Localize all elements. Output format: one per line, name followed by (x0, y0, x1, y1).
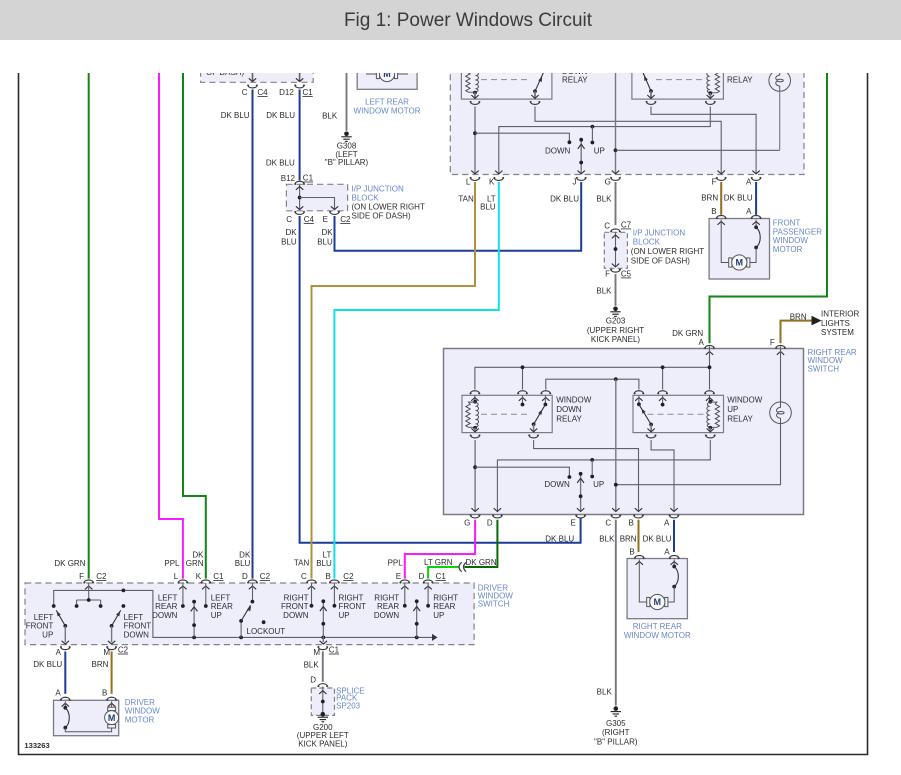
svg-text:REAR: REAR (211, 602, 233, 611)
SW1 wire: pin G up through box with lamp branch (614, 66, 780, 174)
SW2 pin A entry (705, 345, 715, 354)
K4 coil (707, 395, 720, 432)
svg-text:LEFT REAR: LEFT REAR (365, 97, 409, 106)
K3 unused middle pin (521, 395, 525, 406)
svg-text:A: A (56, 648, 62, 657)
svg-text:WINDOW: WINDOW (556, 395, 592, 404)
svg-text:DK BLU: DK BLU (550, 195, 579, 204)
svg-text:C: C (242, 88, 248, 97)
lamp L1 (769, 70, 791, 151)
driver window switch SW3 (25, 583, 513, 645)
svg-text:DK BLU: DK BLU (545, 535, 574, 544)
svg-text:UP: UP (42, 630, 53, 639)
svg-text:F: F (605, 270, 610, 279)
svg-text:C2: C2 (118, 646, 129, 655)
SW3 right front up contact from pin B (333, 583, 367, 620)
svg-text:DK BLU: DK BLU (266, 159, 295, 168)
ground G308 (left B pillar) (325, 132, 369, 168)
svg-text:MOTOR: MOTOR (773, 245, 803, 254)
svg-text:MOTOR: MOTOR (125, 715, 155, 724)
svg-text:REAR: REAR (433, 602, 455, 611)
wire BRN SW1 F to passenger motor B (720, 182, 722, 215)
SW3 right rear lever (413, 599, 420, 637)
svg-text:DOWN: DOWN (374, 611, 400, 620)
svg-text:WINDOW MOTOR: WINDOW MOTOR (354, 107, 421, 116)
K2 switch (641, 68, 655, 99)
svg-text:PPL: PPL (388, 559, 404, 568)
SW1 bottom edge pin arrows (471, 171, 760, 174)
SW3 pin D2 / C1 (419, 572, 447, 589)
svg-text:UP: UP (594, 146, 605, 155)
svg-text:F: F (712, 178, 717, 187)
SW1 pin J (550, 177, 586, 204)
SW3 pin C (301, 572, 316, 589)
svg-text:A: A (746, 178, 752, 187)
svg-text:C: C (605, 519, 611, 528)
svg-text:E: E (396, 572, 401, 581)
svg-text:G305: G305 (606, 719, 626, 728)
ground G200 (upper left kick panel) (297, 712, 349, 748)
svg-text:C: C (604, 222, 610, 231)
wire DK GRN feed to driver switch K (183, 66, 206, 579)
svg-text:BLU: BLU (480, 202, 496, 211)
ground G305 (right B pillar) (594, 706, 638, 746)
svg-text:BLK: BLK (597, 687, 613, 696)
svg-text:(ON LOWER RIGHT: (ON LOWER RIGHT (631, 247, 704, 256)
lamp L2 (616, 347, 792, 485)
svg-text:(ON LOWER RIGHT: (ON LOWER RIGHT (352, 203, 425, 212)
svg-text:WINDOW: WINDOW (727, 395, 763, 404)
svg-text:DK BLU: DK BLU (221, 111, 250, 120)
svg-text:UP: UP (339, 611, 350, 620)
SW3 pin B / C2 (326, 572, 355, 589)
svg-text:RIGHT: RIGHT (284, 593, 309, 602)
svg-text:BLU: BLU (316, 559, 332, 568)
K4 switch (637, 395, 655, 432)
SW3 pin M2 bottom with bus drop (304, 637, 340, 669)
SW2 wire: ground line pin C (614, 379, 618, 511)
K2 pin connectors (646, 101, 715, 104)
svg-text:DK BLU: DK BLU (643, 535, 672, 544)
driver window motor M1 (54, 689, 161, 736)
svg-text:L: L (174, 572, 179, 581)
svg-text:RELAY: RELAY (556, 415, 582, 424)
svg-text:M: M (103, 648, 110, 657)
svg-text:TAN: TAN (458, 195, 474, 204)
top clip cover (0, 40, 901, 73)
interior lights system arrow (812, 310, 860, 338)
SW2 feed line to relay tops (475, 347, 711, 390)
svg-text:LEFT: LEFT (124, 613, 144, 622)
svg-text:LEFT: LEFT (34, 613, 54, 622)
svg-text:B: B (628, 519, 633, 528)
SW3 right rear down contact from pin E (374, 583, 407, 620)
left rear window motor (clipped) (354, 58, 421, 116)
SW3 right rear up contact from pin D2 (426, 583, 458, 620)
svg-text:RIGHT REAR: RIGHT REAR (633, 622, 682, 631)
JB1 pin C / C4 (281, 211, 314, 246)
svg-text:A: A (698, 338, 704, 347)
svg-text:DRIVER: DRIVER (125, 698, 155, 707)
svg-text:(RIGHT: (RIGHT (602, 728, 630, 737)
wire DK BLU C4 to driver switch D (221, 90, 253, 579)
svg-text:D: D (310, 676, 316, 685)
wire BLK SW3 M2 to splice pack (322, 652, 324, 682)
svg-text:RIGHT: RIGHT (339, 593, 364, 602)
svg-text:C: C (286, 215, 292, 224)
svg-text:C4: C4 (257, 88, 268, 97)
K1 pin connectors (470, 101, 540, 104)
svg-text:D: D (242, 572, 248, 581)
svg-text:Fig 1: Power Windows Circuit: Fig 1: Power Windows Circuit (344, 10, 593, 31)
wire LT GRN splice to driver switch D (424, 558, 459, 579)
svg-text:WINDOW: WINDOW (773, 236, 809, 245)
relay K4 window up relay (633, 391, 763, 433)
SW3 left front down switch (108, 604, 151, 644)
svg-text:LEFT: LEFT (211, 593, 231, 602)
wire DK BLU SW1 A to passenger motor A (755, 182, 757, 215)
wire DK BLU C1 to junction block B12 (266, 90, 300, 181)
svg-text:"B" PILLAR): "B" PILLAR) (325, 158, 369, 167)
svg-text:C5: C5 (621, 270, 632, 279)
svg-text:WINDOW MOTOR: WINDOW MOTOR (624, 631, 691, 640)
svg-text:DK BLU: DK BLU (266, 111, 295, 120)
SW2 pin D (487, 515, 502, 528)
K4 bottom connectors (646, 435, 715, 438)
svg-text:PASSENGER: PASSENGER (773, 227, 822, 236)
SW3 pin M bottom (92, 646, 129, 670)
svg-text:SWITCH: SWITCH (478, 599, 510, 608)
svg-text:DK BLU: DK BLU (33, 660, 62, 669)
svg-text:K: K (489, 178, 495, 187)
K1 actuation dashed link (481, 79, 530, 81)
SW1 pin A (724, 177, 761, 203)
wire BRN SW2 B to right rear motor B (638, 520, 640, 552)
svg-text:PPL: PPL (164, 559, 180, 568)
relay K2 window up relay (632, 58, 753, 99)
SW3 ground bus (54, 589, 438, 641)
svg-text:I/P JUNCTION: I/P JUNCTION (633, 229, 686, 238)
svg-text:FRONT: FRONT (339, 602, 367, 611)
svg-text:C1: C1 (303, 88, 314, 97)
svg-text:BLU: BLU (235, 559, 251, 568)
wire BLK SW1 G to junction block JB2 (615, 182, 617, 225)
svg-text:DK BLU: DK BLU (724, 194, 753, 203)
SW3 left rear lever (191, 600, 198, 638)
svg-text:BLOCK: BLOCK (352, 193, 380, 202)
svg-text:A: A (664, 547, 670, 556)
svg-text:C2: C2 (343, 572, 354, 581)
svg-text:A: A (664, 519, 670, 528)
svg-text:I/P JUNCTION: I/P JUNCTION (352, 184, 405, 193)
K3 coil (466, 395, 479, 432)
svg-text:E: E (571, 519, 576, 528)
svg-text:SIDE OF DASH): SIDE OF DASH) (631, 256, 690, 265)
SW3 pin K / C1 (196, 572, 224, 589)
svg-text:133263: 133263 (24, 741, 49, 750)
svg-text:KICK PANEL): KICK PANEL) (298, 739, 348, 748)
passenger window switch SW1 (clipped top) (450, 58, 804, 175)
svg-text:C1: C1 (436, 572, 447, 581)
inline splice connector (459, 562, 466, 571)
SW2 pin F entry (776, 345, 786, 354)
SW3 F feed bar (75, 583, 103, 608)
svg-text:G: G (464, 519, 470, 528)
SW2 wire: K3 switch to pin B (534, 440, 639, 511)
svg-text:DK GRN: DK GRN (466, 558, 497, 567)
svg-text:DOWN: DOWN (152, 611, 178, 620)
svg-text:FRONT: FRONT (26, 622, 54, 631)
svg-text:RELAY: RELAY (727, 415, 753, 424)
svg-text:L: L (466, 178, 471, 187)
K3 switch (530, 395, 547, 432)
svg-text:BLOCK: BLOCK (633, 238, 661, 247)
SW3 right front down contact from pin C (281, 583, 313, 620)
SW1 pin L (458, 177, 480, 204)
wire PPL SW2 G to driver switch E (388, 520, 476, 579)
svg-text:LIGHTS: LIGHTS (821, 319, 850, 328)
wire BLK to ground G308 (322, 66, 346, 131)
wire BLK JB2 to ground G203 (596, 274, 615, 306)
svg-text:D12: D12 (279, 88, 294, 97)
wire DK BLU C4 long run to right-rear switch E (300, 216, 581, 543)
svg-text:DOWN: DOWN (556, 405, 582, 414)
svg-text:DOWN: DOWN (124, 630, 150, 639)
svg-text:LOCKOUT: LOCKOUT (247, 627, 286, 636)
wire DK GRN SW2 D to inline splice (465, 520, 498, 567)
svg-text:GRN: GRN (186, 559, 204, 568)
svg-text:TAN: TAN (294, 559, 310, 568)
K2 actuation dashed link (656, 79, 705, 81)
svg-text:C1: C1 (213, 572, 224, 581)
SW2 pin B (620, 515, 644, 544)
svg-text:F: F (770, 338, 775, 347)
svg-text:REAR: REAR (377, 602, 399, 611)
svg-text:M: M (108, 713, 116, 723)
SW3 left front up switch (26, 604, 69, 644)
SW3 pin A bottom (33, 646, 70, 669)
svg-text:C1: C1 (303, 174, 314, 183)
JB0 pin C / C4 (242, 66, 268, 97)
svg-text:SIDE OF DASH): SIDE OF DASH) (352, 211, 411, 220)
K3 actuation dashed link (481, 413, 528, 415)
K1 coil (466, 67, 479, 99)
svg-text:B: B (629, 547, 634, 556)
JB0 pin D12 / C1 (279, 66, 313, 97)
svg-text:BLU: BLU (281, 238, 297, 247)
svg-text:BLK: BLK (304, 660, 320, 669)
svg-text:UP: UP (211, 611, 222, 620)
SW3 right front lever (320, 599, 327, 637)
SW1 pin G (596, 177, 620, 204)
svg-text:G: G (605, 178, 611, 187)
wire DK BLU SW2 A to right rear motor A (673, 520, 675, 552)
SW2 pin C (599, 515, 620, 544)
svg-text:A: A (55, 689, 61, 698)
SW2 pin A2 (643, 515, 679, 544)
svg-text:BRN: BRN (701, 194, 718, 203)
SW2 wire: K4 switch to pin A (651, 440, 674, 511)
svg-text:E: E (323, 215, 328, 224)
svg-text:LT GRN: LT GRN (424, 558, 453, 567)
SW2 wire: K3 coil to pin G with down contact branch (473, 440, 571, 511)
svg-text:B: B (711, 207, 716, 216)
SW1 wire: pin K to K2 coil with up contact branch (499, 107, 711, 175)
svg-text:RIGHT: RIGHT (433, 593, 458, 602)
svg-text:UP: UP (593, 480, 604, 489)
svg-text:DK GRN: DK GRN (54, 559, 85, 568)
svg-text:FRONT: FRONT (281, 602, 309, 611)
SW3 left rear down contact from pin L (152, 583, 185, 620)
svg-text:C2: C2 (260, 572, 271, 581)
splice pack SP203 (310, 676, 364, 716)
svg-text:DK: DK (285, 228, 297, 237)
svg-text:BRN: BRN (790, 312, 807, 321)
SW2 pin G (464, 515, 480, 528)
JB1 pin E / C2 (317, 211, 351, 246)
svg-text:M: M (313, 648, 320, 657)
SW2 pin E (545, 515, 585, 544)
SW3 pin E (396, 572, 410, 589)
SW3 pin D / C2 (242, 572, 271, 589)
svg-text:DK: DK (321, 228, 333, 237)
title bar (0, 0, 901, 40)
svg-text:SYSTEM: SYSTEM (821, 328, 854, 337)
svg-text:BLK: BLK (596, 287, 612, 296)
svg-text:FRONT: FRONT (773, 218, 801, 227)
SW1 wire: K2 switch to pin A (651, 107, 756, 175)
svg-text:A: A (746, 207, 752, 216)
svg-text:F: F (79, 572, 84, 581)
right rear window motor M3 (624, 547, 691, 640)
wire BRN SW3 M to driver motor B (111, 652, 113, 694)
svg-text:(UPPER RIGHT: (UPPER RIGHT (587, 326, 644, 335)
front passenger window motor M2 (709, 207, 822, 279)
wire PPL feed to driver switch L (159, 66, 183, 579)
SW1 selector lever from pin J (578, 138, 585, 174)
svg-text:B: B (102, 689, 107, 698)
svg-text:C4: C4 (304, 215, 315, 224)
SW2 ground line to relay switch tops (546, 377, 639, 389)
SW2 selector lever from pin E (577, 472, 584, 511)
relay K3 window down relay (462, 391, 592, 433)
SW3 pin L (174, 572, 188, 589)
svg-text:K: K (196, 572, 202, 581)
svg-text:FRONT: FRONT (124, 622, 152, 631)
right rear window switch SW2 (444, 348, 857, 515)
svg-text:B: B (326, 572, 331, 581)
svg-text:BLK: BLK (322, 111, 338, 120)
svg-text:LEFT: LEFT (158, 593, 178, 602)
wire DK GRN feed to driver switch F (54, 66, 88, 579)
wire DK BLU C2 to passenger switch J (335, 182, 582, 251)
svg-text:BLK: BLK (599, 535, 615, 544)
svg-text:C2: C2 (340, 215, 351, 224)
svg-text:C2: C2 (96, 572, 107, 581)
svg-text:G203: G203 (606, 317, 626, 326)
relay K1 window down relay (461, 58, 588, 99)
SW2 bottom edge pin arrows (471, 508, 677, 511)
SW1 pin F (701, 177, 726, 203)
SW1 pin K (480, 177, 504, 211)
svg-text:J: J (573, 178, 577, 187)
SW3 lockout switch (239, 583, 285, 637)
SW1 wire: K1 switch to pin F (535, 107, 721, 175)
svg-text:BLK: BLK (596, 195, 612, 204)
svg-text:C1: C1 (329, 646, 340, 655)
SW1 wire: K1 coil to pin L with down contact branch (473, 107, 571, 175)
svg-text:DOWN: DOWN (283, 611, 309, 620)
I/P junction block JB1 (281, 174, 425, 221)
svg-text:UP: UP (433, 611, 444, 620)
svg-text:D: D (487, 519, 493, 528)
K1 switch (531, 68, 545, 99)
svg-text:WINDOW: WINDOW (125, 707, 161, 716)
svg-text:RIGHT: RIGHT (374, 593, 399, 602)
svg-text:D: D (419, 572, 425, 581)
svg-text:UP: UP (727, 405, 738, 414)
svg-text:C: C (301, 572, 307, 581)
SW3 left rear up contact from pin K (204, 583, 233, 620)
svg-text:DOWN: DOWN (545, 146, 571, 155)
svg-text:RELAY: RELAY (562, 76, 588, 85)
wire DK BLU SW3 A to driver motor A (64, 652, 66, 694)
svg-text:BRN: BRN (620, 535, 637, 544)
I/P junction block JB0 (top, clipped) (201, 58, 314, 82)
K4 actuation dashed link (648, 413, 705, 415)
wire BRN right rear switch F to interior lights (770, 312, 812, 347)
svg-text:DK GRN: DK GRN (672, 329, 703, 338)
svg-text:C7: C7 (621, 221, 632, 230)
svg-text:SP203: SP203 (336, 701, 361, 710)
K4 unused middle pin (661, 395, 665, 406)
svg-text:"B" PILLAR): "B" PILLAR) (594, 737, 638, 746)
svg-text:RELAY: RELAY (727, 76, 753, 85)
I/P junction block JB2 (604, 221, 704, 279)
svg-text:SWITCH: SWITCH (808, 364, 840, 373)
SW2 wire: K4 coil to pin D with up contact branch (497, 440, 710, 511)
wire DK GRN feed to right rear switch A (672, 66, 827, 347)
wire TAN passenger switch L to driver switch C (294, 182, 475, 579)
K2 coil (707, 68, 720, 99)
SW3 pin F / C2 (79, 572, 107, 589)
svg-text:DOWN: DOWN (544, 480, 570, 489)
svg-text:KICK PANEL): KICK PANEL) (591, 335, 641, 344)
svg-text:INTERIOR: INTERIOR (821, 310, 859, 319)
svg-text:REAR: REAR (155, 602, 177, 611)
svg-text:BLU: BLU (317, 238, 333, 247)
K3 bottom connectors (470, 435, 538, 438)
wire BLK SW2 C to ground G305 (597, 520, 616, 706)
svg-text:B12: B12 (281, 174, 296, 183)
wire LT BLU passenger switch K to driver switch B (316, 182, 499, 579)
ground G203 (upper right kick panel) (587, 307, 644, 345)
svg-text:BRN: BRN (92, 660, 109, 669)
